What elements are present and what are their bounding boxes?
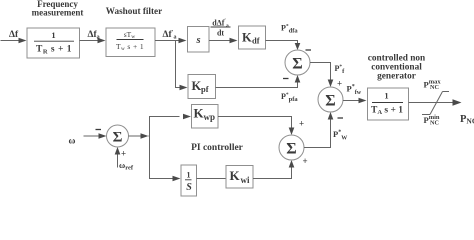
svg-text:Washout filter: Washout filter: [106, 6, 162, 16]
wire: summer S1 output to summer S2 top: [310, 63, 333, 88]
svg-text:generator: generator: [377, 71, 416, 81]
svg-text:Σ: Σ: [113, 130, 123, 146]
block: gain Kwi: [226, 166, 253, 189]
wire: omega ref up into summer S3 bottom: [115, 147, 121, 168]
svg-text:TR s + 1: TR s + 1: [36, 45, 72, 56]
svg-text:K: K: [192, 79, 202, 93]
wire: Δfa from frequency block to washout filter: [80, 38, 106, 44]
sign minus at S1 top input: [306, 49, 312, 51]
svg-text:Σ: Σ: [292, 56, 302, 73]
summer S3: [107, 125, 129, 147]
sign minus at S1 bottom input: [283, 78, 289, 80]
wire: Kdf output to summer S1 top: [266, 41, 301, 51]
block: integrator 1/S: [181, 165, 197, 196]
block: generator 1/(TAs+1): [368, 88, 409, 120]
svg-text:PmaxNC: PmaxNC: [424, 79, 442, 92]
block: gain Kwp: [192, 105, 219, 129]
wire: washout branch down to Kpf: [176, 41, 188, 91]
label: dΔf'a/dt: [211, 18, 231, 37]
svg-text:Tw s + 1: Tw s + 1: [116, 42, 144, 52]
svg-text:+: +: [299, 119, 304, 129]
svg-text:+: +: [337, 79, 342, 89]
wire: summer S3 output to branch: [129, 114, 192, 139]
wire: Δf'a from washout filter to s block: [155, 38, 187, 44]
wire: summer S2 output to generator block: [343, 98, 367, 104]
wire: Kwp output to summer S4 top: [218, 117, 294, 136]
label: controlled non conventional generator: [368, 54, 426, 82]
block: gain Kdf: [239, 26, 266, 49]
wire: summer S4 output up to summer S2 bottom: [304, 112, 333, 148]
label: Frequency measurement: [32, 0, 84, 18]
wire: omega input to summer S3: [84, 133, 107, 139]
svg-text:s: s: [195, 35, 200, 46]
svg-text:K: K: [230, 168, 241, 183]
svg-text:ω: ω: [69, 137, 76, 147]
svg-text:S: S: [186, 182, 192, 193]
sign minus at S2 bottom input: [338, 117, 344, 119]
svg-text:TA s + 1: TA s + 1: [371, 105, 403, 116]
svg-text:wi: wi: [241, 175, 250, 185]
summer S4: [279, 135, 304, 160]
svg-text:pf: pf: [201, 84, 209, 94]
svg-text:Δf: Δf: [9, 30, 19, 40]
svg-text:df: df: [252, 36, 260, 46]
svg-text:wp: wp: [204, 112, 216, 122]
wire: branch down to 1/S block: [150, 136, 181, 181]
svg-text:dt: dt: [217, 28, 224, 37]
svg-text:+: +: [121, 149, 126, 159]
svg-text:Σ: Σ: [325, 93, 335, 110]
svg-text:K: K: [242, 31, 252, 45]
wire: Kwi output to summer S4 bottom: [253, 160, 294, 179]
svg-text:1: 1: [51, 30, 55, 40]
sign minus at S3 left input: [96, 129, 102, 131]
wire: generator output through limiter to PNC: [409, 99, 462, 105]
svg-text:1: 1: [384, 91, 388, 101]
saturation limiter symbol: [422, 92, 449, 115]
svg-text:1: 1: [187, 171, 191, 180]
summer S1: [285, 50, 310, 75]
block: washout filter sTw/(Tws+1): [106, 28, 155, 57]
block: gain Kpf: [188, 75, 216, 99]
summer S2: [318, 87, 343, 112]
block: derivative s: [188, 27, 210, 53]
block: frequency measurement 1/(TRs+1): [27, 28, 80, 58]
svg-text:measurement: measurement: [32, 8, 84, 18]
svg-text:Σ: Σ: [286, 141, 296, 158]
wire: 1/S to Kwi: [197, 178, 227, 180]
svg-text:PminNC: PminNC: [424, 114, 440, 127]
wire: s block to Kdf: [209, 38, 238, 44]
svg-text:+: +: [303, 156, 308, 166]
wire: input Δf into frequency block: [1, 38, 27, 44]
svg-text:PI controller: PI controller: [191, 143, 244, 153]
svg-text:PNC: PNC: [460, 114, 474, 126]
wire: Kpf output to summer S1 bottom: [216, 75, 301, 88]
